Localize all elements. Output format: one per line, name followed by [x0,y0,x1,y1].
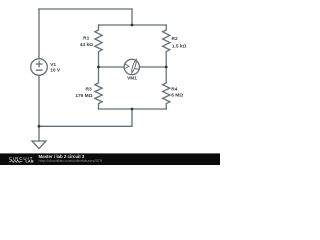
svg-text:VM1: VM1 [127,76,137,82]
wire bridge top [99,24,167,26]
component labels [50,36,186,99]
wire ground lead [38,126,40,141]
wire bridge bottom [99,108,167,110]
svg-text:R3: R3 [86,86,92,92]
svg-text:6 MΩ: 6 MΩ [171,92,183,98]
voltage source V1 [31,59,48,76]
svg-text:R4: R4 [171,87,177,93]
node top junction [131,24,134,27]
resistor R4 [163,67,170,109]
node ground junction [38,125,41,128]
svg-text:44 kΩ: 44 kΩ [80,42,93,48]
node junction dots [38,24,168,128]
footer bar [0,153,220,165]
svg-text:1.5 kΩ: 1.5 kΩ [172,43,187,49]
node bottom bridge mid [131,108,134,111]
footer logo resistor glyph [9,160,22,162]
resistor R2 [163,25,170,67]
voltmeter VM1 internal symbol [126,59,140,73]
ground [32,141,46,149]
wire left rail lower [38,75,40,126]
svg-text:LAB: LAB [26,160,34,164]
svg-text:V1: V1 [50,62,56,68]
node left bridge mid [97,66,100,69]
svg-text:http://circuitlab.com/c/dmfwkz: http://circuitlab.com/c/dmfwkzvrs/579 [39,158,103,163]
svg-text:10 V: 10 V [50,67,61,73]
wire bottom horizontal [39,125,132,127]
wire top horizontal [39,8,132,10]
voltmeter VM1 [124,59,139,74]
node right bridge mid [165,66,168,69]
svg-text:R2: R2 [172,36,178,42]
wire top drop to bridge [131,9,133,25]
wire middle drop [131,109,133,126]
svg-text:176 MΩ: 176 MΩ [75,93,92,99]
resistor R1 [95,25,102,67]
resistor R3 [95,67,102,109]
svg-text:R1: R1 [83,36,89,42]
wire left rail upper [38,9,40,59]
